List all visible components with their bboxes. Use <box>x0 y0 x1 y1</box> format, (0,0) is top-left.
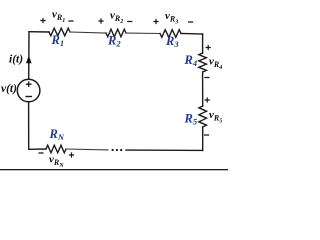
wire dots to bottom-right corner <box>126 149 203 151</box>
wire R4 to R5 <box>202 72 204 106</box>
resistor R1 <box>49 28 70 36</box>
label + vR2 - <box>98 18 103 23</box>
wire left vertical lower <box>28 102 30 150</box>
resistor R4 <box>199 53 207 72</box>
wire left vertical upper <box>28 32 30 79</box>
wire R1 to R2 <box>70 32 106 33</box>
resistor R2 <box>106 29 126 37</box>
voltage source v(t) circle <box>17 79 40 102</box>
label - for R4 <box>204 77 209 79</box>
wire R2 to R3 <box>126 32 160 35</box>
wire R3 to top-right corner <box>181 33 203 36</box>
source plus sign <box>26 81 32 87</box>
svg-text:v(t): v(t) <box>1 83 17 95</box>
wire R5 to bottom-right corner <box>202 127 204 150</box>
wire RN to dots <box>66 148 108 151</box>
label + for R4 <box>206 45 211 50</box>
current arrow i(t) <box>26 56 32 64</box>
junction dots (ellipsis on bottom wire) <box>112 149 114 151</box>
label - for R5 <box>204 134 209 136</box>
label + for R5 <box>205 97 210 102</box>
svg-text:i(t): i(t) <box>9 54 23 66</box>
bottom rule <box>0 169 228 170</box>
resistor R3 <box>160 30 181 38</box>
label - for RN <box>38 152 43 154</box>
wire right vertical upper <box>202 34 204 53</box>
label + vR3 - <box>153 19 158 24</box>
source minus sign <box>25 96 32 97</box>
resistor RN <box>46 145 66 153</box>
label + for RN <box>69 152 74 157</box>
label + vR1 - <box>40 18 45 23</box>
resistor R5 <box>199 106 207 127</box>
wire top-left lead <box>29 31 49 33</box>
wire bottom-left lead <box>29 148 46 150</box>
